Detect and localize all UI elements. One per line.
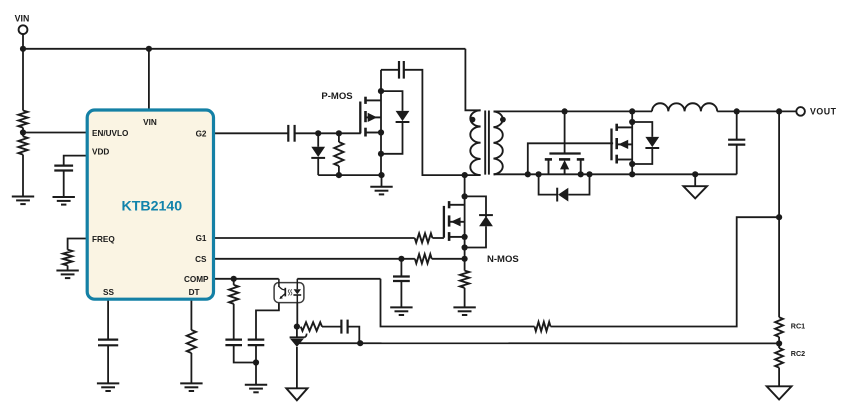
resistor R-LED — [535, 322, 551, 331]
label U1 KTB2140 — [121, 199, 182, 215]
pin label G1 — [196, 234, 207, 243]
capacitor C-CS — [393, 277, 410, 282]
wire flat diode loop — [539, 174, 590, 194]
capacitor SS — [98, 340, 118, 346]
svg-text:DT: DT — [189, 288, 200, 297]
wire G2 — [214, 132, 289, 134]
node junction feedback tap — [776, 214, 782, 220]
ground FREQ — [56, 271, 78, 279]
wire opto anode stub — [296, 279, 298, 283]
wire diode to rail — [317, 158, 319, 175]
wire opto anode line — [297, 278, 380, 280]
wire P-MOS diode bottom — [381, 122, 403, 154]
wire R-FREQ to ground — [67, 266, 69, 271]
wire TL431 anode — [296, 347, 298, 388]
svg-text:KTB2140: KTB2140 — [121, 199, 182, 215]
node VIN input terminal — [19, 25, 28, 48]
wire opto collector pin — [278, 279, 280, 287]
wire C-COMP2 to ground — [255, 345, 257, 385]
node junction SR2 source / bottom rail — [629, 171, 635, 177]
resistor RC1 — [775, 317, 783, 337]
node junction flat FET gate / top rail — [562, 108, 568, 114]
resistor RC2 — [775, 348, 783, 368]
label VIN — [15, 14, 30, 24]
resistor R-CS — [415, 254, 432, 263]
node junction VIN pin — [146, 46, 152, 52]
wire sync gate run — [528, 143, 613, 174]
svg-text:N-MOS: N-MOS — [487, 254, 519, 265]
pin label EN/UVLO — [92, 129, 129, 138]
transformer T1 core — [485, 111, 489, 175]
node junction R-G2 rail — [336, 172, 342, 178]
optocoupler U-opto body — [274, 283, 304, 303]
wire N-MOS diode bottom — [465, 226, 486, 247]
wire CS cap stem — [400, 259, 402, 276]
wire secondary ground stem — [694, 174, 696, 186]
svg-text:VOUT: VOUT — [810, 107, 837, 117]
node EN divider tap — [20, 129, 26, 135]
pin label VIN — [143, 118, 157, 127]
node junction flat right stub — [578, 171, 584, 177]
node N-MOS source stub — [462, 234, 468, 240]
svg-text:VDD: VDD — [92, 148, 109, 157]
wire SR2 diode branch — [632, 122, 652, 137]
node junction sync gate rail — [525, 171, 531, 177]
diode D-G2 clamp — [311, 147, 325, 158]
label RC2 — [791, 349, 805, 358]
ground divider — [12, 197, 34, 205]
label N-MOS — [487, 254, 519, 265]
wire R-FB to C-FB — [322, 326, 341, 328]
ground SS — [97, 383, 119, 391]
optocoupler U-opto LED — [293, 283, 301, 303]
wire secondary bottom rail — [494, 173, 737, 175]
wire divider upper — [22, 49, 24, 111]
wire clamp cap return — [404, 70, 465, 175]
wire secondary bottom stub — [494, 173, 496, 175]
node VOUT output terminal — [796, 107, 805, 116]
pin label COMP — [184, 275, 209, 284]
ground CS filter — [390, 307, 412, 315]
wire SR2 main line — [631, 111, 633, 174]
wire C-COMP2 top to opto — [256, 303, 279, 340]
ground RC2 (triangle) — [767, 386, 792, 399]
wire VDD — [64, 156, 87, 166]
wire RC1 to RC2 — [778, 337, 780, 348]
wire opto cathode stem — [296, 303, 298, 327]
wire P-MOS diode branch — [381, 91, 403, 111]
resistor R-COMP — [229, 285, 238, 304]
svg-text:VIN: VIN — [143, 118, 157, 127]
ground DT — [180, 383, 202, 391]
wire primary bottom — [465, 174, 481, 176]
resistor R-FREQ — [63, 250, 72, 266]
svg-text:RC2: RC2 — [791, 349, 805, 358]
wire C-G2 to gate — [295, 132, 361, 134]
shunt regulator U-TL431 cathode bar — [290, 334, 307, 338]
label VOUT — [810, 107, 837, 117]
resistor R-G1 — [415, 233, 433, 242]
wire source to R-sense — [464, 259, 466, 271]
capacitor C-clamp — [399, 61, 404, 79]
wire C-FB elbow — [348, 327, 360, 344]
wire FREQ — [68, 239, 88, 250]
wire R-DT to ground — [190, 353, 192, 383]
transformer T1 primary winding — [470, 110, 480, 175]
node N-MOS diode return — [462, 244, 468, 250]
pin label G2 — [196, 130, 207, 139]
node junction diode/G2 — [315, 130, 321, 136]
wire clamp cap left — [381, 69, 399, 71]
resistor R-DT — [187, 330, 196, 353]
node P-MOS bottom stub — [378, 129, 384, 135]
ground comp caps — [245, 385, 267, 393]
node junction flat diode right — [586, 171, 592, 177]
transistor Q-NMOS — [444, 201, 465, 241]
node junction VOUT sense — [776, 108, 782, 114]
pin label FREQ — [92, 235, 115, 244]
pin label SS — [103, 288, 114, 297]
capacitor C-G2 series — [288, 125, 294, 142]
wire R-G2 top — [338, 133, 340, 142]
node junction primary bottom — [462, 172, 468, 178]
resistor R-EN upper — [18, 111, 27, 128]
diode D-SR1 — [557, 188, 568, 202]
wire G1 — [214, 237, 415, 239]
wire inductor to VOUT — [717, 110, 796, 112]
wire CS — [214, 258, 415, 260]
wire TL431 reference line — [299, 342, 779, 344]
capacitor C-out — [728, 140, 745, 145]
capacitor C-FB — [341, 320, 347, 334]
optocoupler light arrows — [288, 289, 292, 295]
svg-text:RC1: RC1 — [791, 322, 805, 331]
node junction SR2 diode top — [629, 119, 635, 125]
svg-text:VIN: VIN — [15, 14, 30, 24]
label P-MOS — [321, 91, 352, 102]
svg-text:P-MOS: P-MOS — [321, 91, 352, 102]
node junction secondary ground — [692, 171, 698, 177]
capacitor VDD — [54, 166, 73, 171]
wire R-CS to source — [432, 258, 465, 260]
resistor R-G2 — [334, 142, 343, 166]
svg-text:CS: CS — [195, 255, 207, 264]
wire gate network rail — [318, 174, 381, 176]
wire TL431 cathode stem — [296, 327, 298, 338]
pin label CS — [195, 255, 207, 264]
node junction CS / source — [462, 256, 468, 262]
resistor R-EN lower — [18, 136, 27, 154]
wire flat FET gate stem — [564, 111, 566, 153]
wire R-COMP to cap — [233, 304, 235, 340]
svg-text:EN/UVLO: EN/UVLO — [92, 129, 129, 138]
svg-text:COMP: COMP — [184, 275, 209, 284]
wire VIN rail to primary — [465, 49, 480, 111]
wire R-G2 bottom — [338, 166, 340, 175]
node junction SR2 drain / top rail — [629, 108, 635, 114]
wire N-MOS main line — [464, 175, 466, 259]
wire R-sense to ground — [464, 288, 466, 308]
transformer T1 secondary winding — [494, 111, 503, 174]
wire R-G1 to gate — [432, 237, 444, 239]
node junction ref / RC network — [357, 340, 363, 346]
node N-MOS drain diode tap — [462, 193, 468, 199]
wire rail to ground — [381, 175, 383, 187]
node P-MOS source — [378, 88, 384, 94]
wire SS — [107, 299, 109, 339]
capacitor C-COMP2 — [248, 340, 265, 346]
ground VDD — [53, 197, 75, 205]
node junction RC divider — [776, 340, 782, 346]
ground secondary (triangle) — [683, 186, 707, 198]
svg-text:FREQ: FREQ — [92, 235, 115, 244]
svg-text:G2: G2 — [196, 130, 207, 139]
resistor R-sense — [460, 271, 469, 288]
node junction flat diode left — [536, 171, 542, 177]
wire output cap stem — [736, 111, 738, 139]
transistor Q-PMOS — [360, 97, 381, 137]
svg-text:SS: SS — [103, 288, 114, 297]
wire output cap bottom — [736, 145, 738, 175]
node junction P-MOS drain rail — [378, 172, 384, 178]
wire RC2 to ground — [778, 368, 780, 387]
wire N-MOS diode branch — [465, 196, 486, 217]
node junction output cap — [734, 108, 740, 114]
ground P-MOS — [370, 187, 392, 195]
ground TL431 (triangle) — [286, 388, 307, 400]
wire SR2 diode return — [632, 148, 652, 164]
transistor Q-SR1 (flat) — [545, 154, 584, 175]
ground R-sense — [453, 307, 475, 315]
node P-MOS diode return — [378, 151, 384, 157]
wire EN/UVLO — [23, 132, 87, 134]
node junction comp caps — [253, 359, 259, 365]
pin label DT — [189, 288, 200, 297]
capacitor C-COMP1 — [225, 340, 242, 346]
wire CS cap to ground — [400, 281, 402, 307]
resistor R-FB comp — [301, 322, 322, 331]
wire VIN top rail — [23, 48, 465, 50]
wire divider tap — [22, 128, 24, 137]
diode D-SR2 — [645, 137, 659, 148]
label RC1 — [791, 322, 805, 331]
wire COMP filter stem — [233, 279, 235, 285]
node junction resistor/G2 — [336, 130, 342, 136]
pin label VDD — [92, 148, 109, 157]
shunt regulator U-TL431 body — [290, 339, 304, 347]
wire DT — [190, 299, 192, 330]
op-amp U1 KTB2140 body — [87, 110, 213, 299]
optocoupler U-opto phototransistor — [279, 286, 285, 299]
svg-text:G1: G1 — [196, 234, 207, 243]
wire VIN pin — [148, 49, 150, 110]
node junction CS filter — [398, 256, 404, 262]
inductor L-out — [652, 103, 717, 111]
wire feedback elbow — [551, 217, 780, 326]
node junction VIN rail / divider — [20, 46, 26, 52]
wire C-COMP1 bottom — [234, 345, 256, 362]
diode D-PMOS body — [396, 111, 410, 122]
node junction TL431 cathode — [294, 324, 300, 330]
wire diode stem — [317, 133, 319, 147]
diode D-NMOS body — [479, 215, 493, 226]
node T1 primary phase dot — [470, 117, 476, 123]
wire LED supply run — [381, 279, 535, 327]
wire P-MOS channel line — [380, 70, 382, 175]
wire secondary top rail — [494, 110, 653, 112]
wire VOUT sense line — [778, 111, 780, 317]
transistor Q-SR2 — [612, 124, 633, 164]
wire VDD cap to ground — [63, 171, 65, 198]
wire divider lower — [22, 155, 24, 197]
wire SS cap to ground — [107, 345, 109, 383]
node junction COMP filter — [231, 276, 237, 282]
wire COMP — [214, 278, 279, 280]
node junction SR2 diode bottom — [629, 161, 635, 167]
node T1 secondary phase dot — [500, 117, 506, 123]
